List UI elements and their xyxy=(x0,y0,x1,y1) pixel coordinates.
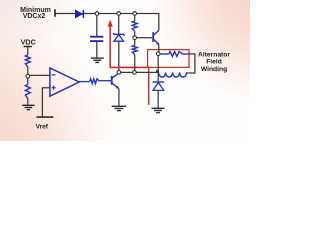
node junction lower (zener/Q2 collector) xyxy=(117,71,121,75)
op-amp U1 xyxy=(50,68,79,96)
resistor R6 (VDC lower) xyxy=(25,85,30,99)
node junction divider mid xyxy=(133,36,137,40)
wire Q1 emitter to node xyxy=(158,45,160,53)
resistor R2 (upper divider) xyxy=(132,21,137,31)
label Minimum VDCx2 xyxy=(20,7,51,20)
resistor R3 (lower divider) xyxy=(132,45,137,54)
wire D2 to ground xyxy=(157,90,159,108)
svg-text:VDCx2: VDCx2 xyxy=(23,13,46,20)
svg-text:Vref: Vref xyxy=(36,124,49,131)
node junction lower (divider bottom) xyxy=(133,71,137,75)
VDC terminal bar xyxy=(24,46,32,48)
node junction on rail (capacitor tap) xyxy=(95,12,99,16)
transistor Q1 (upper NPN) xyxy=(153,30,159,45)
red current arrow xyxy=(108,20,149,68)
lower net wire xyxy=(119,71,159,73)
top rail wire xyxy=(55,14,159,31)
ground (capacitor) xyxy=(91,58,104,62)
wire Q2 emitter to ground xyxy=(118,88,120,106)
label Alternator Field Winding xyxy=(198,51,230,73)
Vref terminal bar xyxy=(36,116,53,118)
wires VDC chain xyxy=(27,47,29,106)
junction blob at winding node xyxy=(156,70,159,73)
wire Q1 base xyxy=(137,37,153,39)
wire zener leg lower xyxy=(118,41,120,71)
ground (flyback diode) xyxy=(152,108,165,112)
node junction VDC divider xyxy=(26,74,30,78)
diode D2 (flyback) xyxy=(153,82,165,90)
svg-text:VDC: VDC xyxy=(21,37,36,46)
wire R5 to Q2 base xyxy=(99,80,111,82)
label Vref xyxy=(36,124,49,131)
svg-text:Alternator: Alternator xyxy=(198,51,230,58)
divider wires (R2/R3 chain) xyxy=(134,15,136,71)
wire zener leg upper xyxy=(118,15,120,34)
red path vertical (field current return) xyxy=(148,67,150,105)
diode D1 (series input diode) xyxy=(75,10,83,18)
ground (VDC divider) xyxy=(22,105,35,109)
svg-text:Field: Field xyxy=(206,58,222,65)
wire loop right of box xyxy=(187,54,195,73)
wire op-amp output xyxy=(79,81,90,83)
zener diode D3 xyxy=(113,33,125,41)
wire node down to lower net xyxy=(157,55,159,82)
svg-text:Winding: Winding xyxy=(201,66,227,73)
resistor R4 (field series, in red box) xyxy=(160,52,190,57)
capacitor C1 xyxy=(90,37,103,41)
red highlight box (field winding) xyxy=(148,50,189,68)
inductor L1 (field winding coil) xyxy=(159,72,187,77)
node junction Q1 emitter xyxy=(156,52,160,56)
label VDC xyxy=(21,37,36,46)
resistor R1 (VDC upper) xyxy=(25,55,30,67)
node junction on rail (divider tap) xyxy=(133,12,137,16)
input terminal xyxy=(54,9,56,16)
wire op-amp non-inverting to Vref xyxy=(42,88,49,117)
resistor R5 (base drive) xyxy=(90,79,100,84)
transistor Q2 (driver NPN) xyxy=(112,73,119,89)
ground (Q2 emitter) xyxy=(112,106,127,110)
wire capacitor leg xyxy=(96,15,98,58)
wire to op-amp inverting input xyxy=(30,74,50,76)
node junction on rail (zener tap) xyxy=(117,12,121,16)
